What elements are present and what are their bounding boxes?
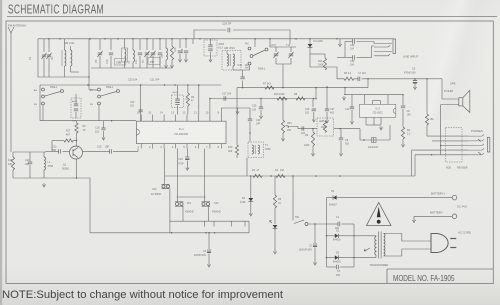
svg-text:473F: 473F [178, 163, 184, 166]
svg-text:SW3-1: SW3-1 [258, 68, 266, 71]
diode D2 [327, 257, 335, 259]
wire r16 row [210, 98, 313, 100]
svg-text:9018G: 9018G [62, 168, 69, 171]
jack PHONES contacts [468, 135, 484, 137]
coil L3 [132, 39, 134, 50]
jack PHONES bar [487, 137, 489, 152]
cap C27 body [326, 87, 328, 109]
capacitor C25 [186, 149, 188, 157]
capacitor C20 [249, 108, 251, 119]
svg-text:TC: TC [142, 60, 145, 63]
svg-text:T13: T13 [286, 44, 291, 47]
svg-text:AM: AM [90, 89, 93, 92]
label box 15P [115, 59, 126, 66]
wire spk drop [440, 105, 442, 155]
module A002 [71, 98, 81, 118]
svg-text:MODEL NO. FA-1905: MODEL NO. FA-1905 [393, 274, 455, 283]
switch SW2-1b [98, 88, 101, 91]
svg-text:LINE INPUT: LINE INPUT [403, 55, 419, 59]
model number box [387, 269, 493, 284]
capacitor C35 [345, 41, 352, 43]
resistor R15 [171, 39, 173, 46]
svg-text:X1: X1 [28, 56, 32, 60]
svg-text:200K: 200K [321, 126, 327, 129]
wire y87 [344, 87, 346, 89]
capacitor C38 [242, 70, 244, 77]
wire vert89 [88, 77, 90, 90]
wire AM input loop [38, 39, 89, 77]
wire a005 out [334, 128, 361, 130]
svg-text:K13: K13 [219, 47, 224, 50]
capacitor C9b [340, 129, 342, 138]
wire q1 base [63, 150, 70, 152]
svg-text:C14: C14 [25, 159, 30, 162]
wire mid rail [40, 84, 221, 86]
cf CF2 10.7MHZ [164, 149, 166, 185]
svg-text:D4 4148: D4 4148 [314, 40, 324, 43]
wire v316 [315, 88, 317, 99]
coil L5 [165, 39, 167, 48]
svg-text:FM: FM [34, 104, 37, 106]
svg-text:20K: 20K [287, 129, 292, 132]
wire q1 emitter [76, 159, 78, 178]
jack PHONES box [446, 128, 462, 163]
svg-text:VC: VC [51, 56, 54, 60]
jack contacts [374, 43, 392, 45]
wire c35 c36 join [344, 42, 346, 58]
wire phones f3 [441, 145, 468, 147]
resistor R13 [323, 58, 326, 70]
svg-text:FM: FM [245, 43, 248, 46]
svg-text:AC CORD: AC CORD [458, 231, 471, 235]
cap C13b [179, 39, 181, 48]
capacitor C7 [354, 78, 358, 80]
wire vr bottom row [289, 127, 317, 129]
svg-text:8 OHM: 8 OHM [444, 89, 454, 93]
svg-text:103: 103 [252, 109, 257, 112]
capacitor C8b [402, 95, 404, 105]
svg-text:104: 104 [407, 114, 412, 117]
svg-text:7MM: 7MM [265, 148, 270, 151]
svg-text:VC3: VC3 [271, 44, 276, 47]
capacitor C26 [260, 99, 262, 108]
capacitor C3 [327, 266, 337, 268]
wire pin10 [209, 99, 211, 115]
wire sw drop [292, 176, 294, 221]
svg-text:30P: 30P [105, 146, 110, 149]
svg-text:R10: R10 [228, 146, 233, 149]
wire top rail [38, 38, 394, 40]
svg-text:503: 503 [345, 143, 350, 146]
wire sw3 leads [254, 39, 256, 47]
title underline [7, 16, 497, 18]
wire t1 down [246, 158, 248, 177]
ic2 top pins [364, 95, 366, 105]
wire phones f4 [412, 149, 468, 151]
capacitor C4 [208, 233, 210, 249]
resistor R5 [274, 176, 276, 195]
svg-text:IC-2: IC-2 [375, 107, 380, 110]
svg-text:100UF/16V: 100UF/16V [194, 254, 206, 257]
potentiometer VR1 [282, 99, 284, 121]
battery plus terminal [452, 195, 457, 200]
svg-text:SCHEMATIC DIAGRAM: SCHEMATIC DIAGRAM [8, 3, 104, 17]
battery minus terminal [452, 214, 457, 219]
ic1 pins [140, 115, 142, 122]
capacitor C19 [302, 126, 304, 130]
wire q1 bottom [13, 177, 90, 179]
svg-text:TRANSFORMER: TRANSFORMER [370, 264, 389, 267]
resistor R1 [276, 174, 285, 177]
svg-text:455KHZ: 455KHZ [212, 211, 221, 214]
transformer AM OSC [222, 51, 241, 71]
varcap C9 [99, 39, 101, 50]
transformer T2 primary [375, 237, 376, 256]
wire q1 collector [76, 133, 78, 146]
capacitor C12b [351, 95, 353, 107]
wire battery plus [345, 197, 452, 199]
svg-text:15P: 15P [150, 61, 155, 64]
cap C12a [159, 39, 161, 50]
wire if link [177, 196, 206, 198]
svg-text:AM COL: AM COL [64, 41, 75, 45]
svg-text:SW2-1: SW2-1 [50, 86, 58, 89]
page left edge shadow [0, 0, 2, 305]
wire ic2 feed [389, 125, 391, 140]
resistor R6a [75, 123, 78, 133]
svg-text:A002: A002 [72, 100, 78, 103]
svg-text:470uF/16V: 470uF/16V [404, 72, 416, 75]
svg-text:ADD: ADD [446, 167, 451, 170]
svg-text:AM OSC: AM OSC [224, 46, 235, 50]
wire pin9 r7 [221, 108, 250, 115]
wire phones f2 [432, 140, 468, 142]
module A001 [172, 95, 184, 108]
wire pin16 c22 [140, 85, 142, 121]
svg-text:SW2-1: SW2-1 [106, 86, 114, 89]
svg-text:150: 150 [430, 118, 435, 121]
wire pin11 [198, 85, 200, 115]
led LED1 [273, 225, 278, 228]
svg-text:C25: C25 [178, 158, 183, 161]
svg-text:30P: 30P [25, 163, 30, 166]
label box C36 [148, 58, 160, 65]
varcap TC3 [288, 52, 293, 58]
wire q1 rail [13, 151, 46, 153]
switch SW3-1 [248, 47, 251, 50]
capacitor C15 [83, 150, 110, 152]
varcap VC4 [152, 39, 154, 50]
switch POWER SW [294, 220, 304, 224]
warning triangle [367, 203, 392, 226]
diode D1 [327, 235, 335, 237]
plug AC [431, 234, 448, 253]
svg-text:FM ANTENNA: FM ANTENNA [8, 24, 26, 28]
wire phones f1 [427, 135, 468, 137]
svg-text:CF3: CF3 [214, 202, 219, 205]
cf CF3 455KHZ [203, 149, 205, 202]
svg-text:102: 102 [130, 105, 135, 108]
svg-text:CD-2003GP: CD-2003GP [174, 132, 188, 136]
svg-text:IN4001: IN4001 [333, 239, 341, 242]
wire stub [192, 39, 194, 44]
resistor R18 [12, 152, 14, 157]
jack LINE INPUT bar [393, 39, 396, 54]
module A005 [317, 118, 334, 136]
module A003 [204, 40, 217, 56]
svg-text:2K3: 2K3 [181, 48, 184, 53]
svg-text:R7 3K3: R7 3K3 [263, 83, 272, 86]
svg-text:C7 104: C7 104 [358, 72, 366, 75]
resistor R16 [277, 97, 287, 100]
transformer T2 core [378, 232, 380, 259]
transformer AM COL [64, 39, 66, 50]
capacitor C16a [51, 141, 53, 152]
antenna A1 [8, 27, 14, 33]
svg-text:CF1: CF1 [187, 202, 192, 205]
capacitor C14 [29, 152, 31, 161]
svg-text:C21 34P: C21 34P [150, 79, 160, 82]
wire q1gnd [89, 178, 91, 233]
paper crease top right [400, 0, 500, 120]
resistor R9 [187, 85, 189, 93]
wire vc3 frame [270, 39, 296, 47]
wire C28 link [194, 30, 226, 39]
diode D4 [309, 39, 311, 44]
svg-text:C10: C10 [106, 59, 109, 64]
capacitor C5 [414, 79, 416, 81]
svg-text:4T08: 4T08 [48, 165, 54, 168]
svg-text:4148: 4148 [240, 201, 246, 204]
resistor R2 [253, 174, 262, 177]
svg-text:104: 104 [350, 64, 355, 67]
wire r7 row [237, 87, 368, 89]
svg-text:34P: 34P [256, 123, 261, 126]
svg-text:1000UF/16V: 1000UF/16V [299, 249, 313, 252]
svg-text:1K: 1K [278, 202, 281, 205]
wire c13 lead [46, 150, 59, 152]
svg-text:R15: R15 [174, 47, 177, 52]
svg-text:100K: 100K [318, 64, 324, 67]
svg-text:100: 100 [280, 169, 285, 172]
svg-text:C12: C12 [345, 108, 350, 111]
svg-text:R17: R17 [66, 130, 71, 133]
varcap TC1 [146, 39, 148, 50]
ground below A003 [209, 58, 212, 62]
varcap VC1 [43, 39, 45, 52]
svg-text:104: 104 [245, 64, 250, 67]
svg-text:DC 4V5: DC 4V5 [457, 205, 467, 209]
svg-text:IN4007: IN4007 [329, 204, 337, 207]
cap C10 [110, 39, 112, 50]
svg-text:R18: R18 [8, 159, 13, 162]
wire power rail [165, 175, 415, 177]
svg-text:R3 2.2: R3 2.2 [344, 72, 352, 75]
ic U1 CD-2003GP [136, 121, 226, 143]
svg-text:103: 103 [305, 112, 310, 115]
varcap VC3 [273, 52, 278, 58]
resistor R3 [344, 77, 354, 80]
svg-text:REVISER: REVISER [457, 167, 468, 170]
svg-text:10uF/16V: 10uF/16V [368, 146, 379, 149]
svg-text:462: 462 [330, 112, 335, 115]
svg-text:PHONES: PHONES [471, 129, 483, 133]
resistor R8 [296, 97, 305, 100]
capacitor C17 [224, 96, 226, 100]
svg-text:VR1: VR1 [287, 122, 292, 125]
resistor R7 [265, 86, 274, 89]
svg-text:1K: 1K [83, 129, 86, 132]
svg-text:BATTERY+: BATTERY+ [431, 192, 446, 196]
svg-text:NOTE:Subject to change without: NOTE:Subject to change without notice fo… [2, 289, 283, 301]
svg-text:R16 100K: R16 100K [274, 93, 285, 96]
wire sw rail2 [40, 120, 136, 122]
svg-text:203: 203 [336, 274, 341, 277]
ic2 bottom pins [365, 117, 367, 125]
capacitor C36 [345, 57, 352, 59]
capacitor C22 [138, 110, 142, 112]
svg-text:C15: C15 [97, 146, 102, 149]
coil L2 [122, 48, 128, 62]
svg-text:4K7: 4K7 [66, 134, 71, 137]
cap C29 [185, 39, 187, 48]
wire gnd rail [90, 232, 249, 234]
wire fm row bottom [91, 67, 172, 69]
resistor R10 [236, 88, 238, 145]
svg-text:455KHZ: 455KHZ [185, 211, 194, 214]
svg-text:C20 104: C20 104 [128, 79, 138, 82]
svg-text:10.7MHZ: 10.7MHZ [151, 193, 161, 196]
wire ic2 vcc rail [344, 94, 403, 96]
wire bridge [326, 198, 328, 267]
capacitor C28 [228, 28, 230, 32]
svg-text:104: 104 [350, 48, 355, 51]
svg-text:103: 103 [95, 131, 100, 134]
transistor Q1 [70, 146, 83, 159]
capacitor C13 [59, 149, 61, 153]
svg-text:C17 104: C17 104 [222, 93, 232, 96]
resistor R4 [402, 118, 404, 127]
svg-text:IC-1: IC-1 [179, 127, 184, 131]
svg-text:C28 3P: C28 3P [222, 22, 231, 26]
diode D5 [327, 197, 334, 199]
cap C16 body [312, 109, 316, 111]
capacitor C2 [314, 224, 316, 243]
wire phones f5 [415, 154, 468, 156]
svg-text:100K: 100K [304, 144, 310, 147]
wire if rail [170, 220, 249, 222]
svg-text:SPK: SPK [450, 82, 456, 86]
wire to ic2 [360, 129, 390, 140]
svg-text:FM: FM [90, 104, 93, 106]
svg-text:CD-2822: CD-2822 [373, 111, 384, 114]
cap c16 left [101, 128, 105, 130]
resistor R6b [312, 129, 314, 132]
electret filter [372, 138, 377, 143]
svg-text:A001: A001 [173, 91, 179, 94]
svg-text:C38: C38 [238, 64, 243, 67]
transformer T1 [248, 142, 264, 158]
svg-text:22K: 22K [8, 163, 13, 166]
svg-text:C26: C26 [252, 105, 257, 108]
resistor R50 [426, 79, 428, 114]
resistor R17 [64, 139, 73, 142]
svg-text:A005: A005 [319, 120, 325, 123]
svg-text:C16: C16 [95, 127, 100, 130]
transformer T2 secondary [384, 234, 385, 257]
svg-text:AM: AM [34, 89, 37, 92]
wire speaker top [442, 79, 459, 99]
wire v313 [312, 99, 314, 108]
svg-text:IN4001: IN4001 [333, 261, 341, 264]
varcap VC2 [48, 39, 50, 52]
wire audio in [337, 67, 344, 79]
coil L1 [43, 152, 45, 157]
svg-text:BATTERY-: BATTERY- [430, 211, 443, 215]
svg-text:CF2: CF2 [152, 188, 157, 191]
ic U2 CD-2822 [360, 104, 396, 117]
cap C11 [139, 39, 141, 50]
diode D3 [250, 176, 252, 198]
switch SW2-1a [42, 88, 45, 91]
wire speaker bottom [441, 104, 459, 106]
wire sw out [308, 223, 327, 225]
wire d4 down [310, 58, 337, 67]
svg-text:3K6: 3K6 [228, 150, 233, 153]
speaker SP1 [459, 98, 463, 106]
wire line input top [339, 39, 341, 43]
capacitor C1 [327, 223, 338, 225]
svg-text:C11: C11 [135, 59, 138, 64]
cf CF1 455KHZ [177, 149, 179, 202]
